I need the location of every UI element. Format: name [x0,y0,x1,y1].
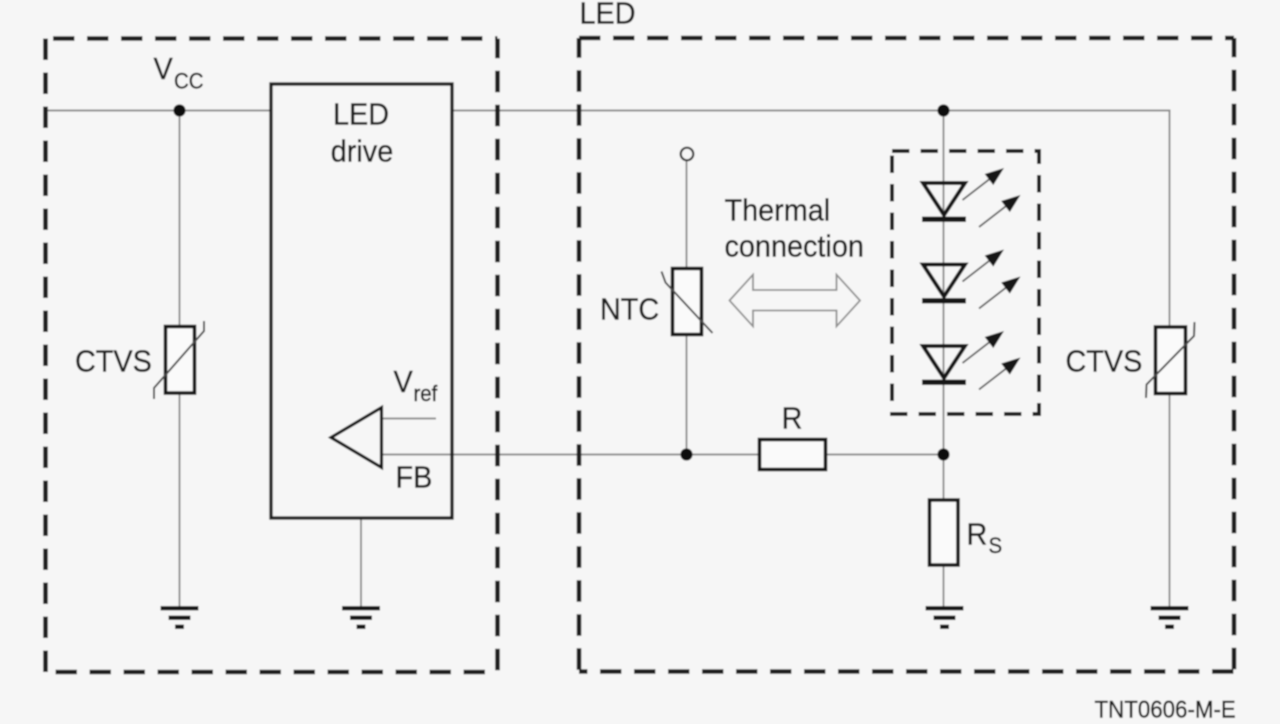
LED D2 [922,250,1021,309]
resistor RS [930,500,959,565]
svg-text:CTVS: CTVS [75,345,152,379]
svg-text:NTC: NTC [600,293,659,327]
svg-text:V: V [394,365,413,399]
wire LED string [943,111,945,501]
svg-text:connection: connection [725,230,864,264]
wire top rail right segment [452,110,1171,112]
wire NTC drop [686,160,688,454]
wire left CTVS to ground [179,392,181,607]
op-amp error amplifier triangle [331,408,382,468]
thermal connection double arrow [730,275,861,327]
svg-text:TNT0606-M-E: TNT0606-M-E [1095,696,1236,719]
op-amp block LED drive U1 [271,84,452,518]
thermistor NTC [662,269,713,335]
svg-text:S: S [989,533,1003,558]
varistor CTVS right [1146,322,1195,398]
LED D1 [922,168,1021,227]
dashed box LED module [579,38,1234,672]
svg-text:R: R [967,518,988,552]
node junction R / LED string / RS dot [937,448,949,460]
dashed box driver module [46,39,498,673]
resistor R [760,440,826,470]
varistor CTVS left [154,321,204,399]
node junction VCC dot [173,104,185,116]
svg-text:R: R [782,402,803,436]
svg-text:Thermal: Thermal [725,194,831,228]
wire right CTVS drop [1169,111,1171,329]
svg-text:CTVS: CTVS [1066,345,1143,379]
svg-text:drive: drive [331,135,393,169]
svg-text:CC: CC [174,69,204,94]
ground GND3 (RS) [926,606,964,629]
wire LED drive to ground [360,518,362,607]
LED D3 [922,331,1021,390]
ground GND1 (left CTVS) [161,606,199,629]
wire left CTVS drop [179,111,181,329]
dashed box LED string [892,151,1039,414]
terminal NTC top circle [681,148,694,161]
wire right CTVS to ground [1169,392,1171,607]
wire R to node [826,454,944,456]
ground GND4 (right CTVS) [1151,606,1189,629]
svg-text:ref: ref [414,381,438,406]
svg-text:FB: FB [396,461,433,495]
svg-text:LED: LED [333,98,389,132]
node junction top rail / LED string dot [937,104,949,116]
wire FB rail [382,454,760,456]
wire RS to ground [943,565,945,607]
wire Vref stub [382,418,437,420]
svg-text:V: V [154,52,173,86]
ground GND2 (LED drive) [342,606,380,629]
wire top rail left segment [46,110,272,112]
svg-text:LED: LED [580,0,636,31]
node junction NTC / FB dot [680,448,692,460]
